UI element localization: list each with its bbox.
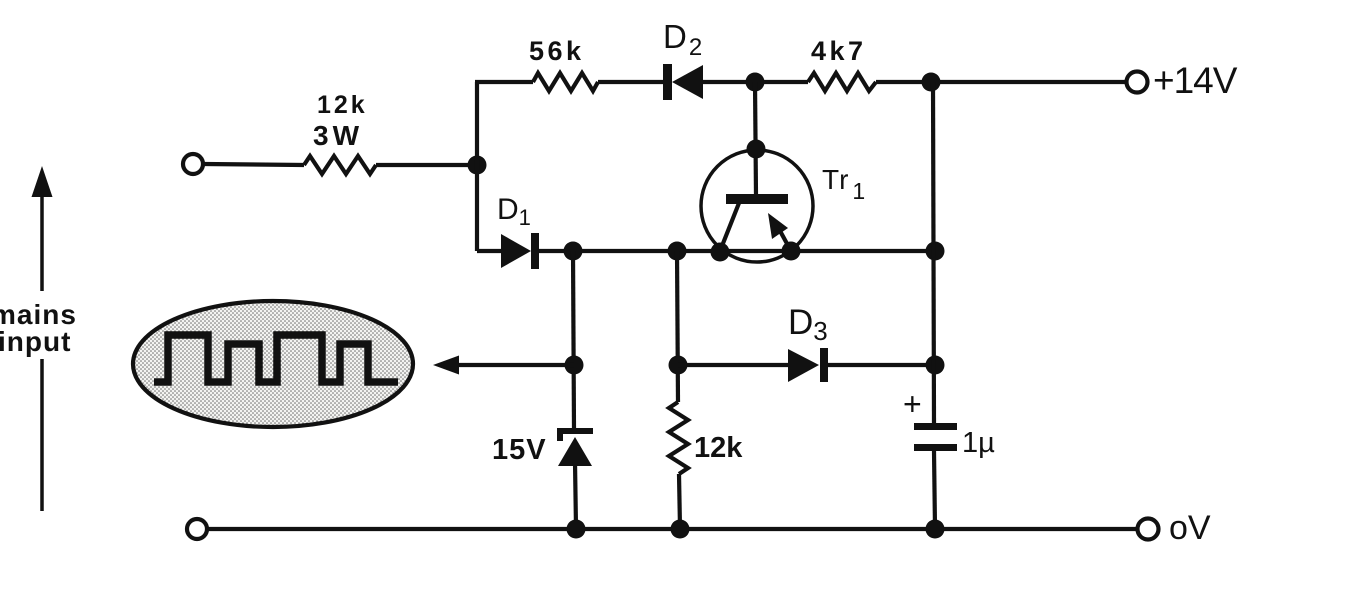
svg-text:56k: 56k xyxy=(529,36,585,66)
wire 56k to D2 xyxy=(598,80,667,84)
wire collector vertical xyxy=(755,82,756,196)
mains input arrow xyxy=(32,166,53,511)
resistor 12k vertical xyxy=(669,402,688,474)
wire right vertical xyxy=(933,82,934,423)
node waveform tap xyxy=(565,356,584,375)
wire row2 xyxy=(477,249,504,253)
wire 12k to rail xyxy=(679,474,680,528)
svg-text:input: input xyxy=(0,326,71,357)
terminal bottom left xyxy=(187,519,207,539)
svg-text:+: + xyxy=(903,386,922,422)
diode D1 xyxy=(501,233,539,269)
resistor 56k xyxy=(533,73,598,91)
wire top rail left xyxy=(475,80,533,84)
svg-text:12k: 12k xyxy=(694,432,743,464)
svg-text:1µ: 1µ xyxy=(962,427,995,459)
resistor 4k7 xyxy=(808,73,876,91)
node C xyxy=(922,73,941,92)
wire zener vertical upper xyxy=(573,251,574,430)
diode D3 xyxy=(788,348,828,382)
wire cap to rail xyxy=(934,451,935,528)
wire 4k7 to +14V terminal xyxy=(876,80,1126,84)
node emitter right xyxy=(782,242,801,261)
wire D2 to 4k7 xyxy=(703,80,808,84)
node emitter left xyxy=(711,243,730,262)
waveform square wave xyxy=(154,335,398,382)
svg-text:12k: 12k xyxy=(317,91,368,119)
wire 12k vertical upper xyxy=(677,251,678,402)
bottom rail xyxy=(207,527,1138,531)
resistor 12k 3W xyxy=(304,156,376,174)
node B xyxy=(746,73,765,92)
node rail zener xyxy=(567,520,586,539)
wire D3 to node xyxy=(827,363,935,367)
node rail cap xyxy=(926,520,945,539)
zener diode 15V xyxy=(557,428,593,466)
wire left vertical xyxy=(475,82,479,251)
terminal: mains input top xyxy=(183,154,203,174)
svg-text:+14V: +14V xyxy=(1153,60,1238,101)
transistor Tr1 xyxy=(701,150,813,262)
capacitor C1 1u xyxy=(914,423,957,451)
node 12k top xyxy=(668,242,687,261)
node D3 left xyxy=(669,356,688,375)
node row2 right xyxy=(926,242,945,261)
diode D2 xyxy=(663,64,703,100)
wire arrow to waveform xyxy=(443,363,574,367)
node transistor top xyxy=(747,140,766,159)
wire resistor to node A xyxy=(376,163,477,167)
wire zener to rail xyxy=(575,462,576,528)
svg-text:4k7: 4k7 xyxy=(811,36,867,66)
wire D3 row xyxy=(678,363,790,367)
waveform ellipse xyxy=(133,301,413,427)
svg-text:oV: oV xyxy=(1169,509,1211,547)
wire input to resistor xyxy=(204,164,304,165)
node A xyxy=(468,156,487,175)
svg-text:3W: 3W xyxy=(313,120,363,151)
svg-text:15V: 15V xyxy=(492,434,547,466)
terminal 0V xyxy=(1138,519,1159,540)
node D1 out xyxy=(564,242,583,261)
terminal +14V xyxy=(1127,72,1148,93)
node cap top xyxy=(926,356,945,375)
node rail 12k xyxy=(671,520,690,539)
